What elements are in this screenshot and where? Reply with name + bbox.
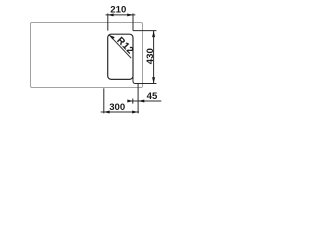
cabinet right wall line	[137, 83, 139, 113]
dim 45 arrow right	[138, 100, 144, 103]
R12 leader arrow	[109, 35, 115, 39]
dim 45 extension line left	[132, 99, 134, 104]
dim 430 arrow bottom	[152, 77, 155, 83]
dim 45 arrow left	[127, 100, 133, 103]
dim 210 line	[106, 14, 136, 16]
dim 300 line	[101, 111, 139, 113]
svg-text:210: 210	[110, 5, 126, 16]
svg-text:430: 430	[145, 48, 156, 64]
cabinet left wall line	[103, 88, 105, 113]
dim 300 arrow left	[104, 111, 110, 114]
dim 210 arrow left	[108, 13, 114, 16]
dim 430 extension line top	[133, 30, 157, 32]
dim 430 arrow top	[152, 31, 155, 37]
svg-text:300: 300	[109, 102, 125, 113]
dim 430 line	[153, 31, 155, 84]
dim 300 arrow right	[132, 111, 138, 114]
dim 210 arrow right	[127, 13, 133, 16]
dim 45 line	[128, 100, 161, 102]
countertop outline	[31, 23, 143, 88]
bowl corner to 430 bottom extension line	[133, 77, 156, 84]
dim 210 extension line right	[132, 13, 134, 30]
dim 210 extension line left	[107, 13, 109, 30]
R12 leader line	[109, 35, 131, 58]
sink bowl cutout	[108, 34, 133, 79]
svg-text:45: 45	[147, 91, 158, 102]
